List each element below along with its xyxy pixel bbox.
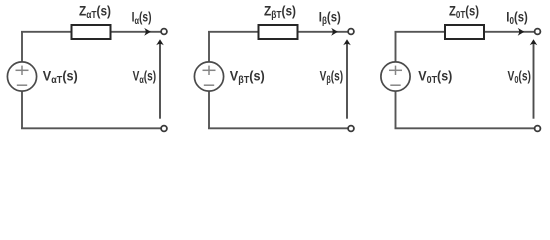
voltage arrow Va (pointing up) [159,42,161,119]
node: bottom terminal [348,126,354,132]
impedance ZaT(s) box [72,25,111,39]
node: top terminal [348,29,354,35]
svg-text:Iβ(s): Iβ(s) [319,9,341,28]
wire: left vertical conductor [395,32,397,129]
impedance ZbT(s) box [259,25,298,39]
voltage arrow V0 (pointing up) [533,42,535,119]
node: top terminal [535,29,541,35]
wire: top conductor from source to impedance [395,31,445,33]
svg-text:VαT(s): VαT(s) [43,67,78,86]
svg-text:Z0T(s): Z0T(s) [449,2,479,21]
wire: bottom conductor [21,127,161,129]
wire: top conductor from impedance to terminal [298,31,348,33]
source minus sign [204,84,214,86]
node: bottom terminal [161,126,167,132]
svg-text:I0(s): I0(s) [506,9,528,28]
voltage source VaT circle [7,62,36,91]
wire: top conductor from source to impedance [21,31,71,33]
source minus sign [17,84,27,86]
svg-text:V0T(s): V0T(s) [418,67,452,86]
svg-text:Vβ(s): Vβ(s) [320,68,344,87]
wire: top conductor from source to impedance [208,31,258,33]
source plus sign [389,66,402,75]
current arrowhead Ia [144,28,151,36]
wire: left vertical conductor [21,32,23,129]
current arrowhead Ib [331,28,338,36]
svg-text:ZβT(s): ZβT(s) [264,2,296,21]
impedance Z0T(s) box [445,25,484,39]
svg-text:ZαT(s): ZαT(s) [79,2,111,21]
wire: bottom conductor [208,127,348,129]
voltage source V0T circle [381,62,410,91]
current arrowhead I0 [518,28,525,36]
source plus sign [16,66,29,75]
node: top terminal [161,29,167,35]
node: bottom terminal [535,126,541,132]
voltage source VbT circle [194,62,223,91]
svg-text:VβT(s): VβT(s) [230,67,265,86]
wire: top conductor from impedance to terminal [111,31,161,33]
svg-text:Vα(s): Vα(s) [133,68,157,87]
wire: left vertical conductor [208,32,210,129]
svg-text:Iα(s): Iα(s) [132,9,152,28]
source plus sign [203,66,216,75]
wire: top conductor from impedance to terminal [485,31,535,33]
svg-text:V0(s): V0(s) [508,68,532,87]
source minus sign [390,84,400,86]
wire: bottom conductor [395,127,535,129]
voltage arrow Vb (pointing up) [346,42,348,119]
